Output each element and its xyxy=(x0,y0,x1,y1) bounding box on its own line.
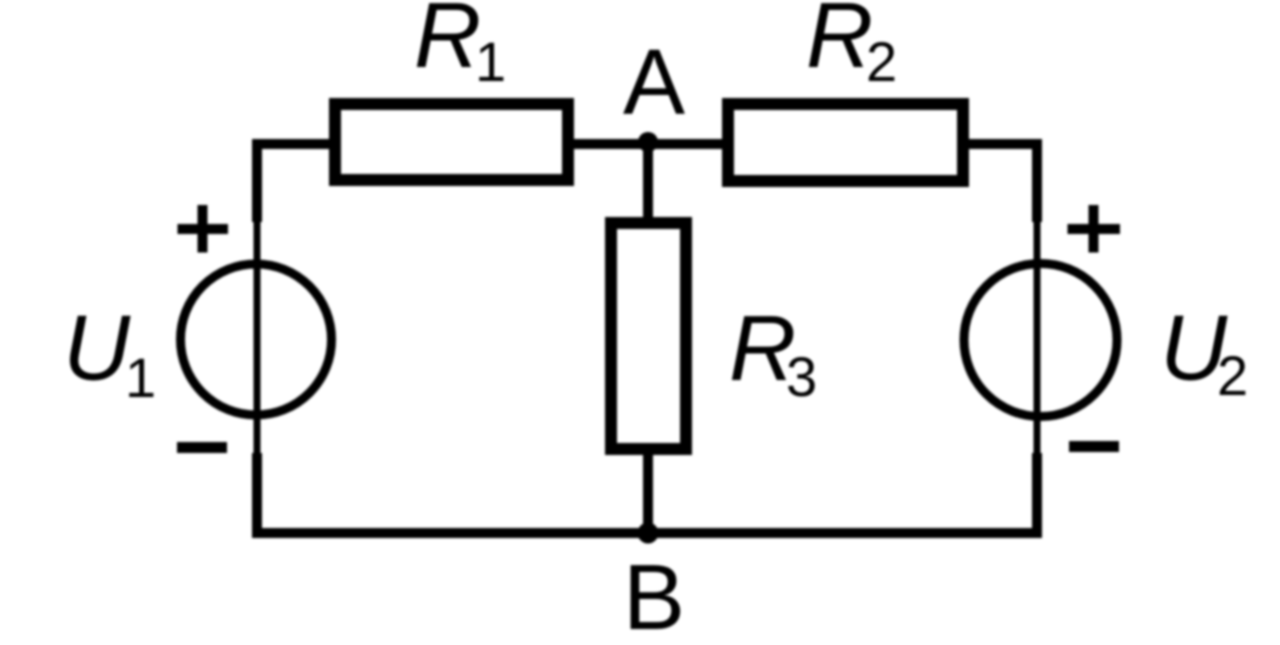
svg-text:B: B xyxy=(623,545,685,645)
minus sign U1 xyxy=(177,442,227,453)
plus sign U2 xyxy=(1068,205,1121,253)
minus sign U2 xyxy=(1069,441,1119,452)
wire: R3 bottom to node B xyxy=(643,455,653,533)
svg-text:2: 2 xyxy=(866,30,897,93)
node A junction dot xyxy=(638,132,658,152)
node B junction dot xyxy=(638,523,659,544)
voltage source U2 circle xyxy=(964,264,1117,417)
svg-text:U: U xyxy=(63,296,131,400)
wire: bottom rail xyxy=(257,453,1037,533)
wire: top middle R1 to R2 through node A xyxy=(574,139,722,149)
wire: top-left from left corner to R1 xyxy=(257,144,329,222)
resistor R1 xyxy=(335,104,568,180)
svg-text:R: R xyxy=(414,0,481,87)
resistor R3 xyxy=(611,223,686,449)
svg-text:R: R xyxy=(806,0,873,87)
svg-text:A: A xyxy=(623,30,685,134)
svg-text:1: 1 xyxy=(125,346,156,409)
voltage source U2 line xyxy=(1034,222,1041,453)
svg-text:1: 1 xyxy=(475,30,506,93)
wire: top-right from R2 to right corner down xyxy=(963,144,1037,222)
resistor R2 xyxy=(728,104,963,181)
voltage source U1 line xyxy=(254,222,261,453)
voltage source U1 circle xyxy=(181,264,332,415)
svg-text:3: 3 xyxy=(786,345,817,408)
svg-text:2: 2 xyxy=(1217,344,1248,407)
plus sign U1 xyxy=(178,205,229,253)
wire: R3 top from node A xyxy=(643,144,653,217)
